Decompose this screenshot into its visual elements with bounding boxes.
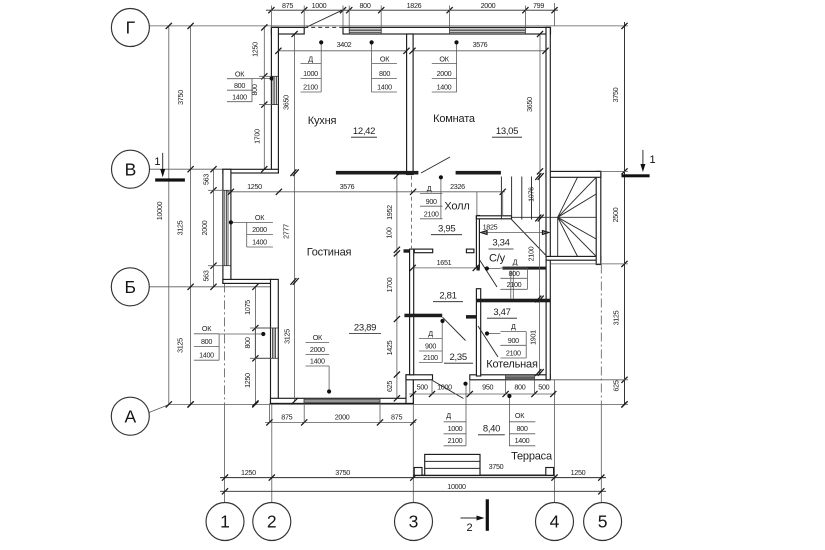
axis circle В: [112, 150, 150, 188]
svg-text:563: 563: [202, 270, 211, 281]
svg-text:2,35: 2,35: [450, 352, 467, 363]
wall room2.81 bottom: [404, 314, 442, 318]
wall connector south: [406, 375, 413, 404]
svg-text:С/у: С/у: [489, 253, 506, 265]
svg-text:В: В: [125, 159, 137, 179]
window OK800 south (kotelnaya): [506, 375, 535, 377]
left chain 563/2000/563: [213, 169, 215, 287]
axis 2 extension: [271, 403, 273, 502]
dim 3576 komnata top: [413, 50, 546, 52]
svg-text:ОК: ОК: [380, 55, 390, 64]
dim 3402 kitchen top: [278, 50, 406, 52]
svg-text:1000: 1000: [312, 1, 327, 10]
left chain 10000: [168, 26, 170, 405]
wall jut left: [223, 169, 231, 283]
svg-text:2100: 2100: [424, 210, 439, 219]
svg-text:1400: 1400: [437, 83, 452, 92]
svg-text:625: 625: [385, 381, 394, 392]
axis 3 extension: [412, 380, 414, 503]
svg-text:800: 800: [379, 69, 390, 78]
left chain 3750/3125/3125: [190, 26, 192, 405]
svg-text:1000: 1000: [448, 424, 463, 433]
svg-text:ОК: ОК: [255, 213, 265, 222]
svg-text:2500: 2500: [611, 207, 620, 222]
axis 5 dashed line: [600, 265, 602, 405]
callout table OK2000 gostinaya window: [247, 221, 273, 223]
callout table OK800 kitchen window: [371, 62, 397, 64]
right chain 3750/2500/3125/625: [624, 22, 626, 404]
callout table OK2000 gostinaya south window: [306, 342, 330, 344]
wall stair bay east: [596, 171, 601, 264]
svg-text:625: 625: [612, 380, 621, 391]
staircase winder fan: [558, 177, 578, 217]
staircase underside diagonal (su): [512, 220, 546, 256]
svg-text:563: 563: [202, 174, 211, 185]
svg-text:Д: Д: [427, 184, 432, 193]
axis circle 3: [395, 503, 433, 541]
svg-text:1250: 1250: [243, 373, 252, 388]
svg-text:2100: 2100: [527, 246, 536, 261]
svg-text:4: 4: [550, 512, 560, 532]
svg-text:3125: 3125: [176, 338, 185, 353]
bottom chain 1250/3750/3750/1250: [220, 477, 606, 479]
svg-text:ОК: ОК: [439, 55, 449, 64]
axis 1 extension: [224, 283, 226, 404]
svg-text:1700: 1700: [385, 277, 394, 292]
svg-text:2000: 2000: [310, 345, 325, 354]
window OK2000 top (komnata): [450, 28, 526, 30]
svg-text:875: 875: [282, 1, 293, 10]
callout table D1000 kitchen door: [301, 62, 322, 64]
callout table D800 su door: [500, 267, 527, 269]
svg-text:1400: 1400: [199, 350, 214, 359]
svg-text:800: 800: [359, 1, 370, 10]
terrace corner post left: [414, 468, 422, 476]
svg-text:1400: 1400: [232, 93, 247, 102]
axis circle 4: [536, 503, 574, 541]
wall gostinaya right: [410, 249, 414, 375]
wall south mid left: [406, 375, 433, 380]
wall south mid right: [470, 375, 551, 380]
wall top left segment: [271, 27, 304, 34]
svg-text:1425: 1425: [385, 340, 394, 355]
axis circle 2: [253, 503, 291, 541]
terrace south edge: [413, 474, 554, 476]
wall B axis segment 1: [336, 171, 419, 175]
axis circle Г: [111, 9, 149, 47]
svg-text:2100: 2100: [423, 353, 438, 362]
svg-text:5: 5: [598, 512, 608, 532]
wall su top: [476, 216, 511, 219]
svg-text:3,34: 3,34: [492, 238, 509, 249]
svg-text:1250: 1250: [241, 468, 256, 477]
svg-text:Д: Д: [446, 411, 451, 420]
dim 1250/3576/2326 B wall: [226, 191, 505, 193]
svg-text:Г: Г: [126, 18, 136, 38]
section marker 2 bottom: [486, 499, 489, 531]
svg-text:100: 100: [385, 227, 394, 238]
svg-text:23,89: 23,89: [354, 323, 376, 334]
svg-text:1076: 1076: [527, 187, 536, 202]
wall top right segment: [343, 27, 551, 34]
axis line Б: [150, 286, 271, 288]
wall bottom А: [271, 398, 414, 403]
svg-text:800: 800: [243, 337, 252, 348]
svg-text:1700: 1700: [252, 129, 261, 144]
wall B axis segment 2: [456, 171, 501, 175]
window OK2000 jut left (gostinaya): [224, 190, 226, 265]
svg-text:1250: 1250: [571, 468, 586, 477]
window OK800 top (kitchen): [349, 28, 381, 30]
svg-text:2000: 2000: [200, 220, 209, 235]
bottom chain 10000: [220, 490, 606, 492]
dashed boundary gostinaya/hall: [411, 176, 413, 249]
dim 1651 hall door: [413, 267, 476, 269]
wall step at Б: [223, 279, 272, 283]
duct wall below su: [510, 271, 512, 299]
terrace corner post right: [546, 468, 554, 476]
svg-text:12,42: 12,42: [353, 126, 375, 137]
axis circle 5: [584, 503, 622, 541]
svg-text:2000: 2000: [252, 225, 267, 234]
wall 3.47 top: [476, 299, 550, 303]
callout table D900 kotelnaya door: [500, 331, 526, 333]
svg-text:799: 799: [533, 1, 544, 10]
svg-text:500: 500: [417, 383, 428, 392]
svg-text:3125: 3125: [612, 310, 621, 325]
svg-text:1952: 1952: [385, 205, 394, 220]
section marker 1 right: [622, 174, 650, 177]
svg-text:1400: 1400: [377, 83, 392, 92]
svg-text:2100: 2100: [507, 280, 522, 289]
svg-text:1651: 1651: [437, 258, 452, 267]
svg-text:2100: 2100: [303, 83, 318, 92]
svg-text:800: 800: [514, 383, 525, 392]
svg-text:3: 3: [409, 512, 419, 532]
axis circle 1: [206, 503, 244, 541]
svg-text:3125: 3125: [176, 220, 185, 235]
terrace steps: [425, 454, 480, 475]
axis line Г: [150, 25, 629, 27]
svg-text:3650: 3650: [282, 95, 291, 110]
svg-text:Кухня: Кухня: [308, 115, 337, 127]
svg-text:Д: Д: [428, 329, 433, 338]
door leaf top entry: [305, 10, 343, 28]
svg-text:3750: 3750: [611, 87, 620, 102]
svg-text:2000: 2000: [481, 1, 496, 10]
svg-text:2777: 2777: [282, 224, 291, 239]
wall kotelnaya east: [546, 259, 550, 380]
svg-text:1075: 1075: [243, 300, 252, 315]
section marker 1 left: [155, 178, 185, 181]
svg-text:800: 800: [234, 81, 245, 90]
wall left lower: [271, 279, 279, 403]
window niche box: [255, 328, 270, 358]
svg-text:900: 900: [508, 336, 519, 345]
svg-text:1250: 1250: [247, 182, 262, 191]
left chain 1250/800/1700: [263, 27, 265, 169]
svg-text:2: 2: [466, 522, 472, 534]
svg-text:800: 800: [508, 269, 519, 278]
callout table OK2000 komnata window: [432, 62, 457, 64]
window OK800 left lower (gostinaya): [271, 328, 273, 358]
axis line В: [150, 168, 223, 170]
wall kitchen/komnata divider: [407, 34, 414, 175]
svg-text:1400: 1400: [515, 436, 530, 445]
wall hall bottom seg 2: [466, 249, 474, 253]
wall jut top: [223, 169, 279, 173]
svg-text:2,81: 2,81: [439, 291, 456, 302]
ticks on A line: [188, 401, 194, 407]
dim 3650 komnata right: [539, 34, 541, 171]
top dimension line: [266, 9, 558, 11]
svg-text:1000: 1000: [437, 383, 452, 392]
wall stair bay north: [546, 171, 601, 177]
door leaf room 2.81: [443, 317, 466, 340]
svg-text:10000: 10000: [155, 201, 164, 220]
door leaf terrace: [433, 381, 464, 399]
svg-text:Комната: Комната: [433, 113, 476, 125]
svg-text:2326: 2326: [450, 182, 465, 191]
svg-text:500: 500: [538, 383, 549, 392]
svg-text:ОК: ОК: [202, 324, 212, 333]
svg-text:800: 800: [201, 337, 212, 346]
svg-text:2000: 2000: [437, 69, 452, 78]
window OK800 left upper (kitchen): [272, 76, 274, 104]
door leaf kotelnaya: [478, 326, 498, 357]
svg-text:Холл: Холл: [444, 201, 469, 213]
svg-text:ОК: ОК: [313, 333, 323, 342]
svg-text:875: 875: [391, 413, 402, 422]
svg-text:900: 900: [426, 197, 437, 206]
svg-text:3750: 3750: [176, 90, 185, 105]
wall hall stub left: [404, 249, 410, 252]
dim 1952/100/1700/1425/625 hall left: [396, 176, 398, 398]
callout table OK800 gostinaya lower window: [194, 333, 219, 335]
svg-text:3576: 3576: [340, 182, 355, 191]
wall right upper: [546, 27, 550, 256]
svg-text:3750: 3750: [335, 468, 350, 477]
svg-text:3,47: 3,47: [493, 307, 510, 318]
callout table D1000 terrace door: [444, 421, 466, 423]
callout table OK800 kotelnaya window: [509, 421, 535, 423]
svg-text:ОК: ОК: [235, 70, 245, 79]
svg-text:1901: 1901: [529, 330, 538, 345]
axis line А: [169, 403, 628, 405]
svg-text:3750: 3750: [489, 462, 504, 471]
svg-text:А: А: [124, 406, 136, 426]
svg-text:1000: 1000: [303, 69, 318, 78]
staircase straight treads: [500, 177, 502, 220]
callout table D900 room2.81 door: [419, 338, 442, 340]
svg-text:8,40: 8,40: [483, 424, 500, 435]
svg-text:3576: 3576: [473, 40, 488, 49]
dim 1076/2100/1901 stairs: [539, 171, 541, 374]
svg-text:2100: 2100: [448, 436, 463, 445]
svg-text:13,05: 13,05: [496, 126, 518, 137]
wall stair bay south: [546, 256, 601, 260]
svg-text:ОК: ОК: [515, 411, 525, 420]
dim 500/1000/950/800/500 south: [409, 393, 556, 395]
svg-text:1826: 1826: [407, 1, 422, 10]
wall su bottom stub: [477, 267, 480, 270]
svg-text:2100: 2100: [506, 349, 521, 358]
svg-text:Б: Б: [125, 277, 136, 297]
axis circle Б: [111, 268, 149, 306]
svg-text:2: 2: [267, 512, 277, 532]
wall mid vertical (kotelnaya west): [476, 289, 480, 376]
svg-text:3650: 3650: [525, 97, 534, 112]
svg-text:1250: 1250: [251, 42, 260, 57]
callout table D900 hall door: [420, 193, 442, 195]
svg-text:1825: 1825: [483, 223, 498, 232]
svg-text:950: 950: [482, 383, 493, 392]
dim 1825 su: [481, 232, 549, 234]
svg-text:900: 900: [425, 342, 436, 351]
top extension lines: [270, 6, 272, 28]
svg-text:3125: 3125: [283, 329, 292, 344]
svg-text:2000: 2000: [335, 413, 350, 422]
svg-text:Д: Д: [308, 55, 313, 64]
door leaf komnata: [421, 157, 450, 173]
axis 4 extension: [554, 380, 556, 503]
staircase mid line: [512, 216, 558, 218]
wall left upper: [271, 27, 278, 172]
svg-text:Д: Д: [513, 257, 518, 266]
wall room2.81 bottom stub: [466, 315, 477, 319]
svg-text:3402: 3402: [337, 40, 352, 49]
wall su left: [476, 216, 479, 268]
window OK2000 bottom (gostinaya south): [304, 399, 380, 401]
svg-text:10000: 10000: [447, 482, 466, 491]
dim 875/2000/875 bottom: [265, 421, 416, 423]
dim 3650/2777/3125 kitchen left: [294, 34, 296, 401]
svg-text:Д: Д: [511, 322, 516, 331]
axis circle А: [111, 397, 149, 435]
svg-text:Котельная: Котельная: [486, 359, 538, 371]
svg-text:875: 875: [281, 413, 292, 422]
svg-text:Гостиная: Гостиная: [307, 247, 352, 259]
svg-text:800: 800: [516, 424, 527, 433]
svg-text:1400: 1400: [252, 237, 267, 246]
wall hall bottom seg 1: [414, 249, 432, 253]
callout table OK800 left outside: [227, 78, 252, 80]
svg-text:1: 1: [154, 156, 160, 168]
wall su bottom: [503, 267, 546, 270]
left chain 1075/800/1250: [254, 287, 256, 404]
svg-text:Терраса: Терраса: [511, 451, 553, 463]
svg-text:1400: 1400: [310, 357, 325, 366]
svg-text:3,95: 3,95: [438, 224, 455, 235]
door leaf su: [479, 259, 497, 287]
right extension lines: [601, 170, 629, 172]
svg-text:1: 1: [650, 154, 656, 166]
svg-text:1: 1: [220, 512, 230, 532]
